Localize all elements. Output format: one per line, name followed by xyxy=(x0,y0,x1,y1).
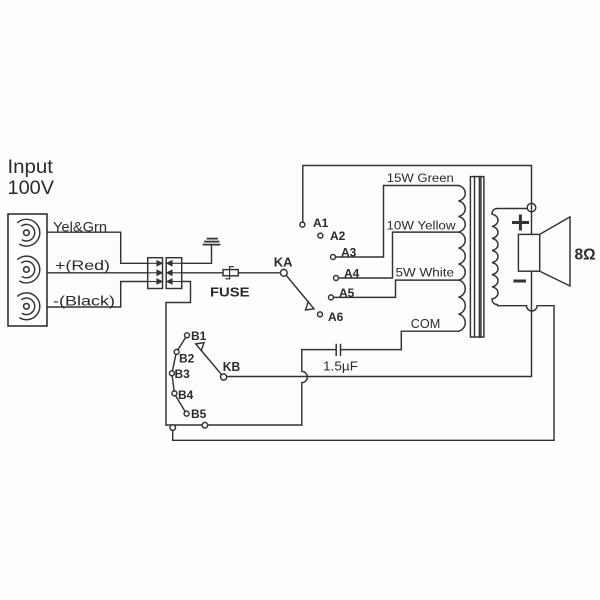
wire fuse to switch KA xyxy=(238,272,280,274)
wire chain B1-B2 xyxy=(178,337,186,349)
fuse FU xyxy=(223,267,238,279)
svg-text:KB: KB xyxy=(223,359,240,374)
wire A3 to 15W tap xyxy=(336,186,459,258)
svg-text:15W Green: 15W Green xyxy=(387,173,454,185)
wire main line to fuse xyxy=(182,272,223,274)
svg-text:B5: B5 xyxy=(191,407,207,421)
wire earth from connector to ground xyxy=(182,245,212,264)
terminal A4 xyxy=(334,276,339,281)
bottom bus 2 xyxy=(173,439,554,441)
svg-text:B4: B4 xyxy=(178,388,194,402)
svg-text:-(Black): -(Black) xyxy=(53,293,115,309)
node junction speaker plus xyxy=(527,203,536,212)
wire cap to COM xyxy=(341,331,459,349)
wire Yel&Grn from block to connector xyxy=(47,232,148,263)
terminal B5 xyxy=(184,411,189,416)
speaker LS1 cone xyxy=(540,217,570,286)
terminal A2 xyxy=(318,233,323,238)
terminal socket 1 (Yel&Grn) xyxy=(18,219,40,246)
terminal A1 xyxy=(300,222,305,227)
svg-text:8Ω: 8Ω xyxy=(575,247,596,264)
wire junction to speaker plus xyxy=(531,203,533,234)
wire secondary bottom with hop over speaker wire xyxy=(498,306,555,441)
switch KB arrowhead xyxy=(196,343,204,351)
terminal B3 xyxy=(169,371,174,376)
connector pins socket xyxy=(167,261,182,284)
node junction bus1 mid xyxy=(202,422,208,428)
input connector block J1 xyxy=(8,214,47,326)
wire speaker minus down to KB line xyxy=(227,271,532,376)
svg-text:COM: COM xyxy=(411,316,441,331)
terminal B4 xyxy=(172,391,177,396)
capacitor C1 1.5uF xyxy=(336,345,340,356)
svg-text:A1: A1 xyxy=(313,216,329,230)
bottom bus 1 xyxy=(166,424,302,426)
terminal A6 xyxy=(318,312,323,317)
svg-text:5W White: 5W White xyxy=(396,267,455,279)
terminal A3 xyxy=(331,255,336,260)
speaker plus sign xyxy=(514,216,528,229)
terminal B2 xyxy=(174,349,179,354)
transformer T1 secondary winding xyxy=(492,209,527,305)
wire A1 to top rail xyxy=(303,166,532,223)
wire A4 to 10W tap xyxy=(339,232,459,278)
wire cap branch with hop over KB line xyxy=(302,350,336,425)
terminal A5 xyxy=(329,295,334,300)
svg-text:A5: A5 xyxy=(339,286,355,300)
svg-text:Input: Input xyxy=(8,156,54,178)
svg-text:B3: B3 xyxy=(175,367,191,381)
svg-text:A4: A4 xyxy=(344,267,360,281)
wire -(Black) from block to connector xyxy=(47,282,148,308)
svg-text:1.5µF: 1.5µF xyxy=(323,360,358,374)
connector pins plug xyxy=(148,261,162,284)
switch KB pivot xyxy=(221,374,227,380)
wire chain B3-B4 xyxy=(172,376,174,391)
speaker minus sign xyxy=(515,280,525,283)
svg-text:10W Yellow: 10W Yellow xyxy=(387,221,457,233)
svg-text:A2: A2 xyxy=(330,229,346,243)
speaker LS1 body xyxy=(518,234,539,271)
svg-text:+(Red): +(Red) xyxy=(55,257,110,273)
svg-text:A6: A6 xyxy=(328,310,344,324)
node junction bus1 left xyxy=(170,425,176,431)
svg-text:A3: A3 xyxy=(341,246,357,260)
connector plug XP (left half) xyxy=(148,258,163,289)
wire -(Black) branch down to bottom bus xyxy=(166,282,191,426)
svg-text:Yel&Grn: Yel&Grn xyxy=(53,219,107,235)
wire chain B2-B3 xyxy=(172,354,176,371)
terminal socket 2 (+Red) xyxy=(18,256,40,283)
transformer core xyxy=(470,177,484,337)
switch KB blade xyxy=(202,351,222,375)
svg-text:KA: KA xyxy=(274,254,293,269)
svg-text:B2: B2 xyxy=(179,352,195,366)
terminal B1 xyxy=(185,333,190,338)
switch KA blade xyxy=(286,275,308,301)
wire junction drop to bus 2 xyxy=(172,430,174,440)
svg-text:100V: 100V xyxy=(8,177,55,199)
switch KA pivot xyxy=(280,269,287,276)
connector socket XS (right half) xyxy=(166,258,182,289)
transformer T1 primary winding xyxy=(459,186,466,332)
wire chain B4-B5 xyxy=(176,396,186,412)
wire +(Red) from block to connector xyxy=(47,272,148,274)
wire A5 to 5W tap xyxy=(334,280,459,297)
terminal socket 3 (-Black) xyxy=(18,293,40,320)
switch KA arrowhead xyxy=(306,302,315,310)
svg-text:FUSE: FUSE xyxy=(210,285,250,300)
ground symbol xyxy=(204,239,220,245)
svg-text:B1: B1 xyxy=(191,329,207,343)
